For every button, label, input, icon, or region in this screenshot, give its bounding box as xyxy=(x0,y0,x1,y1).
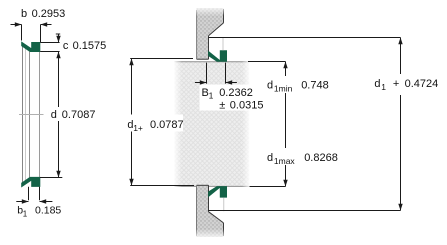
connector line upper xyxy=(222,38,224,51)
dimension d1min label xyxy=(267,79,329,93)
dimension d1 label xyxy=(374,78,438,92)
dimension d vertical line with arrows xyxy=(56,52,60,178)
svg-text:1: 1 xyxy=(381,82,386,92)
svg-text:1+: 1+ xyxy=(133,123,143,133)
svg-text:0.1575: 0.1575 xyxy=(73,40,107,52)
dimension B1 label xyxy=(200,85,264,112)
svg-text:±: ± xyxy=(219,100,225,112)
svg-text:d: d xyxy=(374,78,380,90)
svg-text:0.185: 0.185 xyxy=(35,205,61,217)
svg-text:d: d xyxy=(267,80,273,92)
shaft section xyxy=(173,60,251,188)
dimension c leaders xyxy=(40,43,59,52)
dimension b1 label xyxy=(17,205,61,219)
svg-text:0.2953: 0.2953 xyxy=(32,8,66,20)
counterface wall upper xyxy=(193,5,225,59)
svg-text:0.7087: 0.7087 xyxy=(62,109,96,121)
svg-text:0.748: 0.748 xyxy=(301,79,329,91)
svg-text:c: c xyxy=(63,40,69,52)
counterface wall lower xyxy=(194,185,226,240)
svg-text:d: d xyxy=(51,109,57,121)
svg-text:1: 1 xyxy=(23,209,28,218)
dimension d1+0.0787 label xyxy=(119,115,184,134)
seal installed upper xyxy=(209,51,227,62)
dimension d1 vertical line xyxy=(398,38,402,211)
seal lower cross-section xyxy=(22,177,40,187)
dimension b1 extension lines xyxy=(29,187,40,200)
dimension b label xyxy=(21,8,65,20)
silhouette line (body inner edge) xyxy=(29,52,31,177)
dimension d1 leaders xyxy=(208,38,400,211)
dimension d label xyxy=(47,107,97,121)
seal installed lower xyxy=(209,187,227,198)
svg-text:0.0315: 0.0315 xyxy=(230,100,264,112)
dimension d1min/d1max leaders xyxy=(248,62,286,187)
dimension d1+0.0787 vertical line xyxy=(129,59,133,186)
svg-text:d: d xyxy=(267,152,273,164)
dimension b lines and arrows xyxy=(11,22,52,42)
dimension d1min/d1max vertical line xyxy=(283,62,287,187)
svg-text:1max: 1max xyxy=(274,156,296,166)
seal upper cross-section xyxy=(22,42,40,52)
centerline xyxy=(19,114,44,116)
svg-text:1min: 1min xyxy=(274,83,293,93)
dimension d bottom leader xyxy=(40,177,62,179)
svg-text:b: b xyxy=(21,8,27,20)
silhouette line (lip inner, faint) xyxy=(25,48,27,181)
svg-text:+: + xyxy=(393,78,399,90)
svg-text:0.0787: 0.0787 xyxy=(150,119,184,131)
dimension B1 arrows xyxy=(195,80,237,84)
dimension d1+0.0787 leaders xyxy=(130,59,194,186)
silhouette line (lip tip diameter) xyxy=(22,46,24,184)
svg-text:0.2362: 0.2362 xyxy=(219,87,253,99)
connector line lower xyxy=(223,198,225,212)
silhouette line (body outer edge) xyxy=(39,52,41,177)
dimension c label xyxy=(63,40,106,52)
dimension B1 extension lines xyxy=(207,63,226,84)
dimension b1 arrows xyxy=(16,199,52,203)
dimension d1max label xyxy=(267,152,338,166)
svg-text:0.4724: 0.4724 xyxy=(405,78,439,90)
svg-text:0.8268: 0.8268 xyxy=(304,152,338,164)
svg-text:1: 1 xyxy=(209,91,214,101)
dimension c arrow (top, pointing down) xyxy=(56,34,61,43)
